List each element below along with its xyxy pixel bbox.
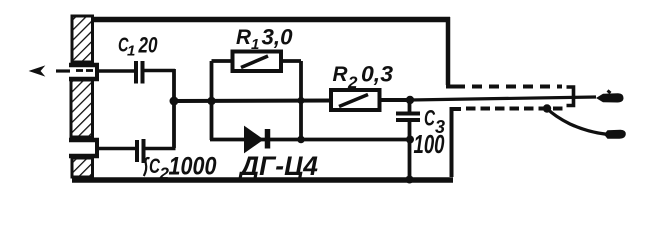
probe slot 1 bottom lip <box>69 77 99 82</box>
node C3 top on bus <box>406 96 414 104</box>
enclosure right wall lower <box>450 107 454 177</box>
svg-text:1: 1 <box>127 43 135 60</box>
node diode right <box>297 136 305 144</box>
svg-text:ДГ-Ц4: ДГ-Ц4 <box>238 151 318 181</box>
probe slot 2 right wall <box>95 138 99 157</box>
label C3 <box>424 106 445 138</box>
probe slot 1 top lip <box>69 63 99 68</box>
node C3 bottom <box>406 176 414 184</box>
probe dash in slot <box>86 69 93 72</box>
coax shield top dashed <box>455 85 562 89</box>
enclosure right wall foot to cable top <box>446 85 457 89</box>
R1 right vertical <box>299 61 303 140</box>
enclosure top wall <box>92 17 450 23</box>
R1 right lead <box>281 59 301 63</box>
wire C1 to corner <box>143 69 176 73</box>
svg-text:R: R <box>333 63 349 86</box>
C3 top lead <box>408 100 412 112</box>
wire vertical C1/C2 node <box>172 69 176 148</box>
waveguide flange top block (hatched) <box>72 16 93 62</box>
input arrow (to waveguide) <box>31 67 44 76</box>
R1 left lead <box>212 59 234 63</box>
probe slot 1 right wall <box>95 63 99 81</box>
wire slot2 to C2 <box>96 147 136 151</box>
capacitor C3 <box>396 114 420 121</box>
waveguide flange middle block (hatched) <box>71 80 93 137</box>
svg-text:100: 100 <box>414 129 445 159</box>
C3 bottom lead <box>408 121 412 180</box>
capacitor C2 <box>137 139 144 163</box>
coax shield right bracket <box>567 87 574 106</box>
label C2 1000 <box>144 153 217 184</box>
node R1 right on bus <box>297 97 304 104</box>
enclosure right wall upper <box>446 17 451 85</box>
wire C2 to vertical <box>144 147 176 151</box>
node at bus and C1/C2 branch <box>170 97 179 106</box>
probe dash in slot <box>76 69 83 72</box>
coax centre conductor <box>410 97 596 100</box>
label R1 3,0 <box>236 25 293 54</box>
probe slot 2 bottom lip <box>69 154 99 159</box>
bus wire R2 to C3 node <box>378 98 412 102</box>
centre plug tip tick <box>608 91 611 94</box>
diode DG-Ts4 <box>245 128 268 152</box>
R1 left vertical <box>210 61 214 140</box>
node shield tap <box>543 104 551 112</box>
svg-text:2: 2 <box>347 73 358 92</box>
label R2 0,3 <box>333 62 394 93</box>
svg-text:1: 1 <box>251 36 259 53</box>
capacitor C1 <box>136 61 143 84</box>
svg-text:20: 20 <box>138 33 158 58</box>
probe slot 2 top lip <box>69 138 99 143</box>
resistor R1 <box>233 52 282 72</box>
svg-text:C: C <box>424 106 436 131</box>
enclosure bottom wall <box>72 177 453 183</box>
waveguide flange bottom block (hatched) <box>72 158 93 177</box>
centre conductor plug <box>596 93 624 102</box>
wire probe to C1 <box>96 69 134 73</box>
coax shield bottom dashed <box>466 107 563 111</box>
node C3 diode branch <box>406 136 414 144</box>
main bus wire <box>174 99 332 104</box>
resistor R2 <box>331 90 380 110</box>
input dashed lead <box>56 69 70 72</box>
shield tap curved wire <box>547 109 606 135</box>
coax shield bottom start foot <box>450 107 461 111</box>
svg-text:3,0: 3,0 <box>262 25 294 50</box>
svg-text:0,3: 0,3 <box>361 62 393 87</box>
node R1 left on bus <box>207 97 215 105</box>
label C1 20 <box>118 33 158 60</box>
shield plug <box>604 130 626 139</box>
diode branch wire <box>210 138 412 142</box>
svg-text:R: R <box>236 26 252 49</box>
svg-text:1000: 1000 <box>169 153 217 181</box>
